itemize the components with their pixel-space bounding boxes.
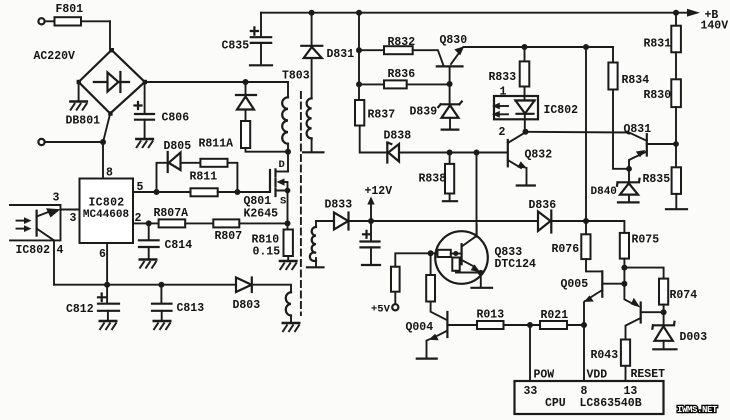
svg-text:D003: D003 xyxy=(680,331,708,344)
node R836 branch xyxy=(356,81,362,87)
svg-text:D838: D838 xyxy=(384,130,412,143)
transistor Q830 xyxy=(437,46,464,83)
node R074 bottom xyxy=(661,309,667,315)
ground below R810 xyxy=(279,261,298,270)
resistor R831 xyxy=(671,10,681,80)
wire lower terminal xyxy=(45,141,103,143)
svg-text:R021: R021 xyxy=(541,309,569,322)
node pin2 xyxy=(146,220,152,226)
bridge rectifier DB801 xyxy=(77,48,147,116)
zener D840 xyxy=(617,169,640,203)
transformer T803 secondary winding xyxy=(303,98,323,152)
resistor R807A xyxy=(159,219,186,227)
svg-text:R835: R835 xyxy=(643,173,671,186)
wire branch up to D805 xyxy=(157,163,168,192)
svg-text:+5V: +5V xyxy=(371,304,391,316)
wire sense column xyxy=(585,47,587,221)
terminal lower AC input xyxy=(38,139,44,145)
svg-text:R831: R831 xyxy=(644,38,672,51)
resistor R021 xyxy=(540,321,584,329)
svg-text:D836: D836 xyxy=(529,199,557,212)
resistor R811 xyxy=(157,188,238,196)
svg-text:Q004: Q004 xyxy=(406,321,434,334)
diode D836 xyxy=(538,211,586,233)
svg-text:R807A: R807A xyxy=(154,207,189,220)
svg-text:CPU: CPU xyxy=(545,397,566,410)
arrow +12V xyxy=(367,197,374,222)
wire Q833 collector column xyxy=(476,153,478,237)
svg-text:RESET: RESET xyxy=(631,368,666,381)
svg-text:D831: D831 xyxy=(327,48,355,61)
ground at bridge left xyxy=(69,102,88,111)
node opto pin2 xyxy=(523,129,529,135)
wire R807 to source node xyxy=(239,222,287,224)
node R832 branch xyxy=(356,47,362,53)
wire pin 6 down xyxy=(106,243,108,285)
node Q833 collector tap xyxy=(474,150,480,156)
transistor Q004 xyxy=(417,312,477,359)
wire B+ top rail xyxy=(261,12,688,14)
wire fuse input xyxy=(45,20,54,22)
ground below aux winding xyxy=(282,323,301,332)
svg-text:IWMS.NET: IWMS.NET xyxy=(677,405,718,415)
resistor R832 xyxy=(359,46,413,54)
terminal +5V xyxy=(392,304,398,310)
node D831 top xyxy=(309,10,315,16)
svg-text:LC863540B: LC863540B xyxy=(580,397,642,410)
node C812 xyxy=(104,282,110,288)
resistor R074 xyxy=(659,279,668,313)
resistor R810 xyxy=(284,223,293,259)
svg-text:R830: R830 xyxy=(644,89,672,102)
wire snubber branch xyxy=(245,82,247,95)
resistor base divider xyxy=(426,253,447,320)
wire opto pin 4 down xyxy=(53,240,55,284)
node snubber tap xyxy=(243,79,249,85)
wire pin2 net xyxy=(526,132,647,141)
ground below C813 xyxy=(153,321,172,330)
svg-text:AC220V: AC220V xyxy=(34,50,76,63)
node source sense xyxy=(285,220,291,226)
transistor Q005 xyxy=(584,271,625,325)
ground below C814 xyxy=(139,260,158,269)
snubber clamp diode xyxy=(236,95,256,121)
resistor R834 xyxy=(608,47,629,169)
wire pin 5 xyxy=(133,191,157,193)
wire R075 node down xyxy=(623,268,625,284)
ground below C812 xyxy=(99,321,118,330)
svg-text:IC802: IC802 xyxy=(16,244,51,257)
resistor R830 xyxy=(671,79,681,144)
resistor R075 xyxy=(620,233,629,268)
svg-text:1: 1 xyxy=(500,86,507,99)
svg-text:Q830: Q830 xyxy=(440,34,468,47)
svg-text:C814: C814 xyxy=(165,239,193,252)
svg-text:2: 2 xyxy=(499,126,506,139)
svg-text:T803: T803 xyxy=(282,70,310,83)
capacitor 12V filter xyxy=(361,221,381,265)
node R838 xyxy=(447,150,453,156)
svg-text:6: 6 xyxy=(99,248,106,261)
zener D003 xyxy=(652,312,676,349)
node pin8 junction xyxy=(100,139,106,145)
CPU box LC863540B xyxy=(515,381,664,414)
node 12V xyxy=(368,218,374,224)
wire R807A to R807 xyxy=(185,222,213,224)
svg-text:4: 4 xyxy=(57,244,64,257)
svg-text:Q831: Q831 xyxy=(624,123,652,136)
zener D839 xyxy=(438,84,462,130)
resistor 5V pullup xyxy=(391,253,431,304)
transformer T803 12V winding xyxy=(307,221,324,267)
svg-text:D833: D833 xyxy=(325,199,353,212)
wire R811A right corner down xyxy=(228,163,238,192)
svg-text:R043: R043 xyxy=(591,349,619,362)
svg-text:13: 13 xyxy=(624,385,638,398)
capacitor C812 xyxy=(98,285,119,320)
node VDD xyxy=(581,322,587,328)
svg-text:K2645: K2645 xyxy=(244,208,279,221)
node Q005 collector xyxy=(621,281,627,287)
svg-text:D803: D803 xyxy=(233,299,261,312)
svg-text:R838: R838 xyxy=(419,173,447,186)
svg-text:R075: R075 xyxy=(632,234,660,247)
svg-text:C813: C813 xyxy=(177,302,205,315)
svg-text:IC802: IC802 xyxy=(544,104,579,117)
svg-text:R811A: R811A xyxy=(199,138,234,151)
svg-text:R811: R811 xyxy=(190,171,218,184)
capacitor C814 xyxy=(139,223,159,258)
svg-text:33: 33 xyxy=(524,385,538,398)
wire bridge left to ground xyxy=(78,82,80,100)
svg-text:C812: C812 xyxy=(66,303,94,316)
optocoupler IC802 phototransistor side xyxy=(10,205,61,240)
fuse F801 xyxy=(54,20,110,22)
svg-text:R836: R836 xyxy=(388,68,416,81)
node POW xyxy=(527,322,533,328)
transformer T803 primary winding xyxy=(282,82,288,152)
svg-text:S: S xyxy=(280,196,286,208)
wire POW pin xyxy=(529,325,531,381)
wire bridge bottom to line node xyxy=(103,114,110,142)
svg-text:D840: D840 xyxy=(591,186,617,198)
resistor R838 xyxy=(443,153,457,202)
resistor R807 xyxy=(213,219,239,227)
svg-text:R013: R013 xyxy=(477,309,505,322)
arrow +B xyxy=(687,9,700,17)
svg-text:DTC124: DTC124 xyxy=(495,258,537,271)
node Q830 collector xyxy=(447,81,453,87)
svg-text:140V: 140V xyxy=(701,20,729,33)
transformer core dashed line xyxy=(300,92,302,315)
wire ground rail xyxy=(54,284,236,286)
node pin5 left xyxy=(154,189,160,195)
svg-text:MC44608: MC44608 xyxy=(83,209,130,221)
ground below C806 xyxy=(135,139,154,148)
svg-text:R076: R076 xyxy=(552,243,580,256)
svg-text:R837: R837 xyxy=(368,109,396,122)
svg-text:R833: R833 xyxy=(489,71,517,84)
capacitor C806 xyxy=(135,82,155,138)
resistor R836 xyxy=(359,80,450,88)
wire to R074 xyxy=(624,268,663,279)
wire gate xyxy=(237,191,270,193)
wire D805 to R811A xyxy=(181,162,201,164)
wire R832 to Q830 base xyxy=(413,50,444,65)
svg-text:R074: R074 xyxy=(670,289,698,302)
diode D831 xyxy=(301,13,322,99)
wire pin 8 xyxy=(102,142,104,179)
wire 12V rail xyxy=(349,220,538,222)
terminal upper AC input xyxy=(38,18,44,24)
svg-text:C806: C806 xyxy=(162,112,190,125)
transistor Q832 xyxy=(508,133,535,186)
diode D805 xyxy=(168,152,181,172)
svg-text:Q005: Q005 xyxy=(561,278,589,291)
resistor R811A xyxy=(200,159,227,167)
svg-text:D805: D805 xyxy=(164,140,192,153)
node emitter rail R833 tap xyxy=(583,44,589,50)
transistor Q833 DTC124 xyxy=(428,225,492,288)
resistor R837 xyxy=(355,100,387,153)
node R075 bottom xyxy=(621,265,627,271)
svg-text:R807: R807 xyxy=(215,230,243,243)
svg-text:Q801: Q801 xyxy=(244,195,272,208)
svg-text:8: 8 xyxy=(581,385,588,398)
wire primary top rail xyxy=(145,81,288,83)
svg-text:POW: POW xyxy=(534,369,555,382)
svg-text:DB801: DB801 xyxy=(66,115,101,128)
transistor Q003 reset xyxy=(624,284,663,340)
wire fuse to bridge top xyxy=(109,21,111,50)
svg-text:VDD: VDD xyxy=(587,369,608,382)
diode D838 xyxy=(387,143,507,163)
snubber resistor xyxy=(241,121,250,148)
MOSFET Q801 K2645 xyxy=(270,152,290,224)
diode D803 xyxy=(236,278,252,293)
wire Q830 emitter rail xyxy=(464,46,614,48)
svg-text:D: D xyxy=(279,159,285,171)
svg-text:R832: R832 xyxy=(388,36,416,49)
transistor Q831 xyxy=(629,134,676,169)
svg-text:R834: R834 xyxy=(622,74,650,87)
diode D833 xyxy=(334,213,349,230)
wire opto collector to chip pin 3 xyxy=(61,209,79,211)
svg-text:C835: C835 xyxy=(222,40,250,53)
svg-text:0.15: 0.15 xyxy=(253,246,281,259)
transformer T803 winding aux xyxy=(286,292,291,321)
capacitor C813 xyxy=(152,285,172,320)
svg-text:+12V: +12V xyxy=(365,185,393,198)
resistor R013 xyxy=(477,321,540,329)
wire winding to D833 xyxy=(316,220,334,222)
svg-text:F801: F801 xyxy=(56,3,84,16)
node drain xyxy=(285,149,291,155)
IC802 controller MC44608 xyxy=(80,179,134,244)
resistor R833 xyxy=(520,44,530,101)
node pin5 right xyxy=(234,189,240,195)
optocoupler IC802 LED side xyxy=(492,96,538,132)
resistor R835 xyxy=(666,144,687,209)
node Q831 base divider xyxy=(673,141,679,147)
node D836 out xyxy=(583,218,589,224)
wire to R075 xyxy=(586,221,624,233)
wire D803 to winding xyxy=(252,285,291,293)
node Q831 emitter xyxy=(626,166,632,172)
svg-text:D839: D839 xyxy=(410,106,438,119)
wire pin 2 xyxy=(133,222,159,224)
svg-text:Q832: Q832 xyxy=(525,149,553,162)
svg-text:IC802: IC802 xyxy=(88,197,124,210)
wire R832 column xyxy=(358,13,360,100)
capacitor C835 xyxy=(250,13,272,66)
node R832 column top xyxy=(356,10,362,16)
node C813 xyxy=(158,282,164,288)
wire VDD pin xyxy=(583,325,585,381)
svg-text:3: 3 xyxy=(70,212,77,225)
resistor R043 xyxy=(621,340,630,382)
wire snubber bottom to drain xyxy=(246,148,289,152)
resistor R076 xyxy=(581,221,602,271)
svg-text:3: 3 xyxy=(53,192,60,205)
